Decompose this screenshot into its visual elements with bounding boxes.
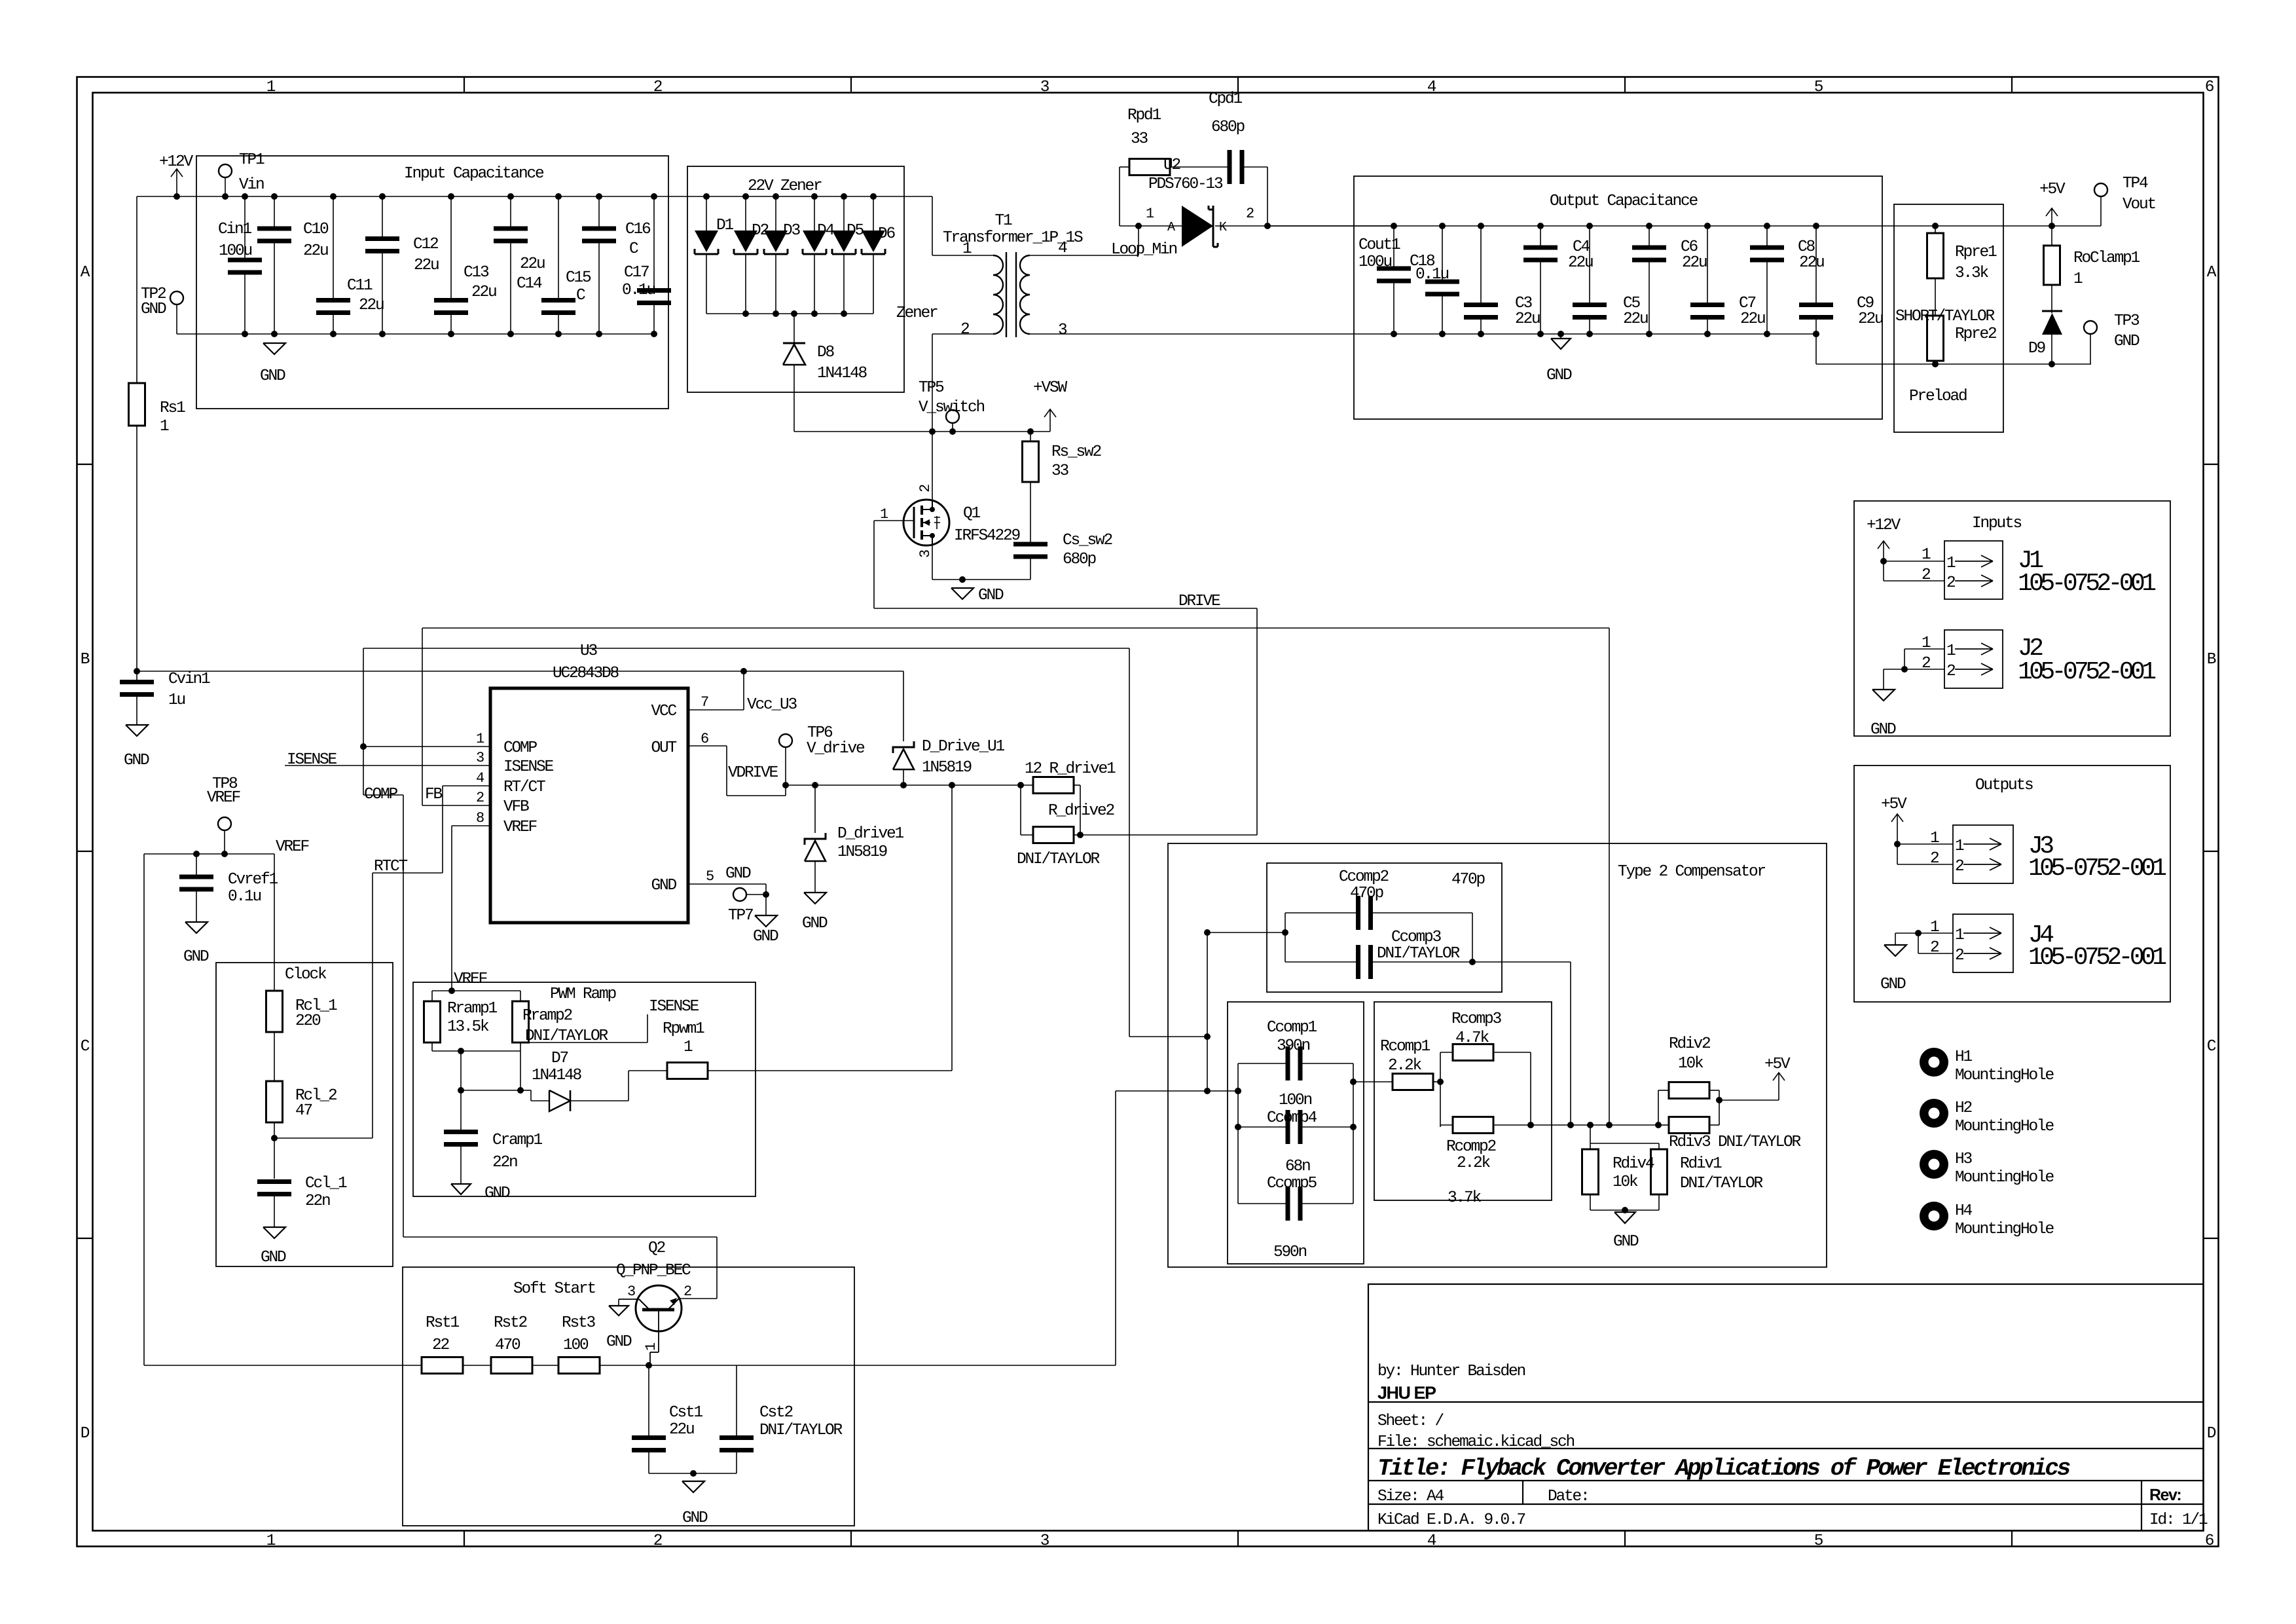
svg-text:10k: 10k — [1678, 1055, 1704, 1073]
svg-text:V_drive: V_drive — [807, 740, 865, 758]
capacitor C14 — [510, 196, 511, 229]
resistor Rpwm1 — [667, 1063, 708, 1079]
svg-text:Type 2 Compensator: Type 2 Compensator — [1618, 863, 1766, 881]
svg-text:GND: GND — [753, 928, 778, 946]
wire U3 pin 6 OUT to VDRIVE — [688, 745, 727, 747]
svg-text:7: 7 — [701, 694, 708, 710]
svg-text:T1: T1 — [994, 212, 1012, 230]
svg-text:VCC: VCC — [651, 703, 676, 720]
ground Q1 source — [951, 588, 974, 599]
svg-text:Rs_sw2: Rs_sw2 — [1051, 443, 1101, 461]
svg-text:GND: GND — [484, 1185, 510, 1202]
svg-text:D_drive1: D_drive1 — [837, 825, 904, 843]
svg-text:C9: C9 — [1857, 295, 1874, 312]
svg-text:MountingHole: MountingHole — [1955, 1169, 2054, 1187]
svg-text:C6: C6 — [1681, 238, 1698, 256]
svg-text:220: 220 — [295, 1012, 321, 1030]
svg-text:1: 1 — [1946, 555, 1956, 572]
svg-text:DRIVE: DRIVE — [1178, 593, 1220, 610]
svg-text:470: 470 — [495, 1337, 520, 1354]
capacitor C7 — [1704, 223, 1711, 229]
wire compensator input row — [1116, 1090, 1238, 1092]
svg-text:GND: GND — [141, 301, 166, 318]
svg-text:Rs1: Rs1 — [160, 399, 185, 417]
block box Type 2 Compensator — [1168, 843, 1827, 1267]
svg-text:Q2: Q2 — [648, 1240, 665, 1257]
svg-text:Cramp1: Cramp1 — [492, 1132, 543, 1149]
svg-text:Vout: Vout — [2123, 196, 2156, 213]
wire ISENSE stub in PWM ramp — [520, 1042, 647, 1043]
svg-text:Rramp2: Rramp2 — [522, 1007, 572, 1025]
capacitor C10 — [274, 196, 275, 229]
svg-text:100n: 100n — [1279, 1092, 1312, 1109]
svg-text:H2: H2 — [1955, 1099, 1972, 1117]
svg-text:FB: FB — [425, 786, 443, 803]
wire VREF into PWM ramp — [432, 990, 520, 991]
connector J4 — [1953, 914, 2013, 972]
wire V_switch node row — [794, 431, 1050, 432]
wire Rpwm1 to V_drive — [708, 1070, 952, 1071]
capacitor C16 — [598, 196, 600, 229]
svg-text:1: 1 — [1930, 919, 1939, 936]
svg-text:C14: C14 — [517, 275, 542, 293]
resistor Rpre2 — [1935, 278, 1936, 316]
capacitor C8 — [1764, 223, 1770, 229]
resistor Rpd1 — [1120, 166, 1129, 168]
wire input ground rail — [177, 333, 654, 335]
svg-text:MountingHole: MountingHole — [1955, 1221, 2054, 1238]
capacitor Ccomp1 — [1238, 1063, 1288, 1064]
wire transformer pin 2 to switch node — [932, 333, 993, 335]
ground U3 pin 5 — [755, 915, 777, 927]
svg-text:Ccomp4: Ccomp4 — [1267, 1109, 1317, 1127]
svg-text:0.1u: 0.1u — [228, 888, 261, 906]
zener diode D4 — [811, 193, 818, 200]
svg-text:105-0752-001: 105-0752-001 — [2028, 944, 2166, 972]
svg-text:GND: GND — [1870, 721, 1896, 739]
svg-text:GND: GND — [124, 752, 149, 769]
wire R_drive2 to DRIVE — [1080, 834, 1257, 836]
svg-text:22u: 22u — [414, 257, 439, 274]
svg-text:Ccomp1: Ccomp1 — [1267, 1019, 1317, 1037]
svg-text:2: 2 — [1930, 850, 1939, 868]
svg-text:Vcc_U3: Vcc_U3 — [747, 696, 797, 714]
wire Q2 collector to COMP — [679, 1298, 717, 1299]
svg-text:3: 3 — [1040, 79, 1049, 96]
svg-text:Clock: Clock — [285, 966, 327, 984]
resistor Rdiv4 — [1590, 1125, 1591, 1143]
svg-text:680p: 680p — [1063, 551, 1097, 568]
svg-text:4.7k: 4.7k — [1455, 1029, 1489, 1047]
block box PWM Ramp — [413, 982, 756, 1196]
svg-text:1N4148: 1N4148 — [817, 365, 867, 382]
wire VREF to soft start — [143, 854, 145, 1365]
test point TP4 — [2094, 183, 2107, 196]
svg-text:1: 1 — [160, 418, 169, 435]
svg-text:1: 1 — [643, 1342, 659, 1351]
wire Ccomp2/Ccomp3 left rail — [1207, 932, 1285, 933]
zener diode D1 — [703, 193, 710, 200]
svg-text:VREF: VREF — [207, 789, 240, 807]
svg-text:22u: 22u — [1740, 310, 1765, 328]
svg-text:2: 2 — [1922, 566, 1930, 584]
svg-text:TP3: TP3 — [2114, 312, 2140, 330]
power flag +5V outputs — [1897, 814, 1898, 844]
svg-text:C: C — [2207, 1038, 2216, 1056]
svg-text:2.2k: 2.2k — [1457, 1154, 1491, 1172]
wire Rs1 to Vcc rail — [136, 426, 137, 671]
svg-text:0.1u: 0.1u — [622, 282, 655, 299]
wire Q1 drain — [932, 432, 933, 500]
svg-text:Rst1: Rst1 — [426, 1314, 460, 1332]
resistor RoClamp1 — [2051, 226, 2052, 246]
svg-text:4: 4 — [1058, 240, 1067, 257]
svg-text:Output Capacitance: Output Capacitance — [1550, 193, 1698, 210]
svg-text:D8: D8 — [817, 344, 835, 361]
svg-text:COMP: COMP — [364, 786, 398, 803]
block box Preload — [1894, 204, 2003, 432]
svg-text:Id: 1/1: Id: 1/1 — [2149, 1511, 2208, 1529]
svg-text:DNI/TAYLOR: DNI/TAYLOR — [1377, 945, 1461, 963]
svg-text:Title: Flyback Converter Appli: Title: Flyback Converter Applications of… — [1377, 1455, 2070, 1482]
svg-text:+VSW: +VSW — [1033, 379, 1068, 397]
capacitor Ccomp3 — [1285, 961, 1358, 963]
svg-text:MountingHole: MountingHole — [1955, 1067, 2054, 1084]
svg-text:Rcomp3: Rcomp3 — [1451, 1010, 1502, 1028]
svg-text:Ccomp2: Ccomp2 — [1339, 868, 1389, 886]
svg-text:1: 1 — [1955, 927, 1964, 944]
svg-text:VFB: VFB — [503, 798, 529, 816]
ground Rdiv — [1614, 1212, 1635, 1223]
svg-text:ISENSE: ISENSE — [649, 998, 699, 1016]
svg-text:22: 22 — [432, 1337, 449, 1354]
svg-text:DNI/TAYLOR: DNI/TAYLOR — [759, 1422, 843, 1439]
transformer T1 secondary winding — [1020, 255, 1030, 334]
svg-text:+5V: +5V — [1764, 1056, 1791, 1073]
svg-text:3: 3 — [917, 550, 934, 558]
wire TP2 to ground rail — [176, 304, 177, 334]
wire compensator output row — [1531, 1124, 1658, 1126]
svg-text:Size: A4: Size: A4 — [1377, 1488, 1444, 1505]
connector J1 — [1944, 541, 2003, 599]
capacitor Cin1 — [244, 196, 246, 260]
capacitor C3 — [1478, 223, 1484, 229]
capacitor C6 — [1646, 223, 1652, 229]
wire output ground rail — [1394, 333, 1816, 335]
svg-text:+5V: +5V — [1881, 796, 1907, 813]
svg-text:Rpd1: Rpd1 — [1127, 107, 1161, 124]
svg-text:1: 1 — [2073, 270, 2083, 288]
wire U2 cathode to output rail — [1215, 225, 1267, 227]
test point TP5 — [946, 410, 959, 423]
ground D_drive1 — [804, 893, 826, 904]
resistor Rcl_2 — [274, 1032, 275, 1081]
capacitor C4 — [1537, 223, 1544, 229]
title block column dividers — [1522, 1481, 1523, 1504]
svg-text:GND: GND — [183, 948, 209, 966]
title block row dividers — [1368, 1401, 2204, 1403]
svg-text:GND: GND — [978, 587, 1004, 604]
svg-text:H3: H3 — [1955, 1151, 1973, 1168]
wire net V_drive row — [786, 784, 1033, 786]
diode U2 PDS760-13 — [1182, 206, 1213, 247]
svg-text:2: 2 — [1922, 655, 1930, 673]
wire ramp resistor bottoms — [432, 1050, 520, 1052]
zener diode D2 — [742, 193, 749, 200]
ground soft start — [682, 1481, 704, 1492]
svg-text:TP5: TP5 — [919, 379, 944, 397]
svg-text:33: 33 — [1051, 462, 1069, 480]
svg-text:GND: GND — [802, 915, 828, 932]
svg-text:C: C — [81, 1038, 90, 1056]
svg-text:VREF: VREF — [276, 838, 309, 856]
wire +12V rail to transformer pin 1 — [932, 196, 933, 255]
ground output caps — [1558, 331, 1564, 337]
svg-text:C: C — [576, 287, 585, 304]
IC U3 UC2843D8 — [490, 688, 688, 923]
svg-text:Rcomp1: Rcomp1 — [1380, 1038, 1430, 1056]
power flag +12V inputs — [1883, 541, 1884, 561]
svg-text:2: 2 — [653, 1532, 662, 1550]
svg-text:TP7: TP7 — [728, 907, 753, 925]
svg-text:6: 6 — [2205, 79, 2214, 96]
wire Vcc rail — [137, 671, 903, 672]
capacitor Cst1 — [648, 1365, 649, 1438]
svg-text:1: 1 — [1955, 838, 1964, 855]
wire TP3 ground row — [1815, 334, 1817, 364]
diode D8 — [793, 314, 795, 343]
svg-text:3: 3 — [627, 1283, 635, 1300]
wire output top rail — [1267, 225, 2101, 227]
svg-text:105-0752-001: 105-0752-001 — [2018, 570, 2155, 598]
capacitor Cramp1 — [460, 1051, 462, 1132]
capacitor C13 — [450, 196, 452, 301]
capacitor C12 — [382, 196, 383, 239]
wire net COMP vertical to compensator — [1207, 932, 1208, 1091]
svg-text:VREF: VREF — [503, 819, 537, 836]
svg-text:Sheet: /: Sheet: / — [1377, 1412, 1444, 1430]
svg-text:Input Capacitance: Input Capacitance — [404, 165, 544, 183]
svg-text:10k: 10k — [1613, 1173, 1638, 1191]
svg-text:2: 2 — [476, 790, 484, 806]
svg-text:C: C — [629, 240, 638, 258]
svg-text:Date:: Date: — [1548, 1488, 1589, 1505]
svg-text:PDS760-13: PDS760-13 — [1148, 175, 1223, 193]
svg-text:TP6: TP6 — [807, 724, 833, 742]
svg-text:3.7k: 3.7k — [1448, 1189, 1482, 1207]
capacitor Ccomp4 — [1238, 1126, 1288, 1128]
wire J3 pins — [1894, 841, 1901, 847]
svg-text:TP4: TP4 — [2123, 175, 2148, 193]
mounting hole H2 — [1920, 1099, 1948, 1128]
svg-text:ISENSE: ISENSE — [503, 758, 554, 776]
svg-text:1: 1 — [962, 240, 972, 258]
svg-text:GND: GND — [606, 1333, 632, 1351]
svg-text:B: B — [81, 651, 90, 669]
svg-text:Soft Start: Soft Start — [513, 1280, 596, 1298]
svg-text:22u: 22u — [1682, 254, 1707, 272]
capacitor Ccomp5 — [1238, 1203, 1288, 1204]
zener diode D6 — [870, 193, 877, 200]
svg-text:5: 5 — [1814, 1532, 1823, 1550]
svg-text:C16: C16 — [625, 221, 651, 238]
diode D9 — [2051, 285, 2052, 313]
resistor R_drive1 — [1033, 777, 1074, 794]
svg-text:Cin1: Cin1 — [218, 221, 252, 238]
svg-text:105-0752-001: 105-0752-001 — [2028, 855, 2166, 883]
svg-text:D1: D1 — [716, 217, 734, 234]
svg-text:MountingHole: MountingHole — [1955, 1118, 2054, 1135]
ground input caps — [263, 343, 285, 354]
capacitor C5 — [1586, 223, 1593, 229]
svg-text:Inputs: Inputs — [1972, 515, 2022, 532]
svg-text:VREF: VREF — [454, 970, 487, 988]
svg-text:Cvin1: Cvin1 — [168, 671, 210, 688]
test point TP3 — [2084, 321, 2097, 334]
svg-text:1: 1 — [1930, 830, 1939, 847]
svg-text:VDRIVE: VDRIVE — [728, 764, 778, 782]
svg-text:2: 2 — [1946, 663, 1955, 680]
power flag +12V — [176, 169, 177, 196]
svg-text:C3: C3 — [1515, 295, 1533, 312]
svg-text:+12V: +12V — [159, 153, 194, 171]
wire J1 pins — [1880, 558, 1887, 564]
block box Output Capacitance — [1354, 176, 1882, 419]
capacitor Cvref1 — [196, 854, 197, 877]
svg-text:R_drive2: R_drive2 — [1048, 802, 1114, 820]
svg-text:5: 5 — [1814, 79, 1823, 96]
wire U3 pin 3 ISENSE — [285, 765, 490, 766]
power flag +VSW — [1049, 409, 1051, 432]
svg-text:DNI/TAYLOR: DNI/TAYLOR — [1017, 851, 1101, 868]
svg-text:DNI/TAYLOR: DNI/TAYLOR — [1680, 1175, 1764, 1192]
title block outline — [1368, 1284, 2204, 1531]
mounting hole H4 — [1920, 1202, 1948, 1230]
svg-text:RTCT: RTCT — [374, 858, 408, 876]
wire Ccomp right rail — [1353, 1063, 1354, 1204]
svg-text:6: 6 — [2205, 1532, 2214, 1550]
svg-text:SHORT/TAYLOR: SHORT/TAYLOR — [1895, 308, 1995, 325]
svg-text:Rcomp2: Rcomp2 — [1446, 1138, 1496, 1156]
svg-text:1u: 1u — [168, 692, 185, 709]
svg-text:Ccl_1: Ccl_1 — [305, 1175, 347, 1192]
svg-text:C15: C15 — [566, 269, 591, 287]
resistor Rst2 — [463, 1365, 491, 1366]
svg-text:C5: C5 — [1623, 295, 1641, 312]
svg-text:GND: GND — [1546, 367, 1572, 384]
svg-text:Preload: Preload — [1909, 388, 1967, 405]
svg-text:1: 1 — [266, 1532, 276, 1550]
svg-text:UC2843D8: UC2843D8 — [553, 665, 619, 682]
wire +12V top rail — [137, 196, 932, 197]
resistor Rcl_1 — [274, 854, 275, 991]
wire ramp node to D7 — [461, 1090, 520, 1091]
svg-text:H1: H1 — [1955, 1048, 1973, 1066]
svg-text:1: 1 — [266, 79, 276, 96]
svg-text:B: B — [2207, 651, 2216, 669]
svg-text:4: 4 — [1427, 1532, 1436, 1550]
resistor Rdiv1 — [1658, 1143, 1660, 1149]
wire D7 cathode to Rpwm1 — [570, 1100, 629, 1101]
svg-text:22u: 22u — [520, 255, 545, 273]
block box Outputs — [1854, 766, 2170, 1002]
svg-text:D: D — [81, 1425, 90, 1443]
power flag +5V compensator — [1719, 1099, 1779, 1101]
svg-text:680p: 680p — [1211, 119, 1245, 136]
svg-text:100u: 100u — [219, 242, 252, 260]
svg-text:C17: C17 — [624, 264, 649, 282]
block box Ccomp2/Ccomp3 — [1267, 863, 1502, 992]
transistor Q1 IRFS4229 — [903, 500, 949, 545]
svg-text:TP1: TP1 — [239, 151, 264, 169]
capacitor Cst2 — [736, 1365, 737, 1438]
test point TP8 — [218, 817, 231, 830]
wire U3 pin 1 COMP — [363, 746, 490, 747]
connector J2 — [1944, 630, 2003, 688]
svg-text:Cst2: Cst2 — [759, 1404, 793, 1422]
connector J3 — [1953, 825, 2013, 883]
wire transformer pin 4 Loop_Min — [1030, 255, 1139, 256]
svg-text:D6: D6 — [878, 225, 896, 243]
svg-text:C11: C11 — [347, 277, 373, 295]
svg-text:D: D — [2207, 1425, 2216, 1443]
wire net COMP — [363, 648, 364, 795]
svg-text:Rst3: Rst3 — [562, 1314, 596, 1332]
wire transformer pin 3 to output ground rail — [1030, 333, 1394, 335]
svg-text:22u: 22u — [1623, 310, 1648, 328]
svg-text:D_Drive_U1: D_Drive_U1 — [922, 738, 1005, 756]
svg-text:U2: U2 — [1163, 157, 1180, 174]
svg-text:1N5819: 1N5819 — [922, 759, 972, 777]
svg-text:470p: 470p — [1451, 871, 1485, 889]
ground Ccl_1 — [263, 1227, 285, 1238]
svg-text:Q_PNP_BEC: Q_PNP_BEC — [616, 1262, 691, 1280]
svg-text:Rev:: Rev: — [2149, 1486, 2181, 1504]
svg-text:PWM Ramp: PWM Ramp — [550, 986, 617, 1003]
svg-text:C13: C13 — [464, 264, 489, 282]
svg-text:2: 2 — [1946, 574, 1955, 592]
wire U3 pin 5 GND — [688, 883, 766, 885]
svg-text:V_switch: V_switch — [919, 399, 985, 416]
transformer T1 primary winding — [993, 255, 1003, 334]
svg-text:22u: 22u — [303, 242, 328, 260]
resistor R_drive2 — [1020, 785, 1021, 835]
wire Rst3 to soft-start node — [600, 1365, 649, 1366]
zener diode D5 — [841, 193, 847, 200]
wire J4 pins — [1918, 932, 1953, 934]
svg-text:RoClamp1: RoClamp1 — [2073, 249, 2140, 267]
svg-text:2: 2 — [960, 321, 969, 339]
svg-text:Loop_Min: Loop_Min — [1111, 241, 1177, 259]
wire RTCT junction — [274, 1122, 275, 1179]
svg-text:GND: GND — [2114, 333, 2140, 350]
wire zener bottom bus — [706, 313, 873, 314]
svg-text:6: 6 — [701, 731, 708, 747]
svg-text:Cout1: Cout1 — [1358, 236, 1400, 254]
svg-text:Q1: Q1 — [963, 505, 981, 523]
svg-text:1N4148: 1N4148 — [532, 1067, 582, 1084]
zener diode D3 — [773, 193, 779, 200]
svg-text:JHU EP: JHU EP — [1377, 1383, 1436, 1403]
svg-text:by: Hunter Baisden: by: Hunter Baisden — [1377, 1363, 1525, 1380]
wire U3 pin 8 VREF — [452, 825, 490, 826]
frame column ticks — [464, 77, 465, 93]
mounting hole H3 — [1920, 1150, 1948, 1179]
svg-text:GND: GND — [260, 367, 285, 385]
ground Q2 pin 3 — [618, 1299, 619, 1306]
svg-text:3.3k: 3.3k — [1955, 265, 1989, 282]
svg-text:22u: 22u — [359, 297, 384, 314]
